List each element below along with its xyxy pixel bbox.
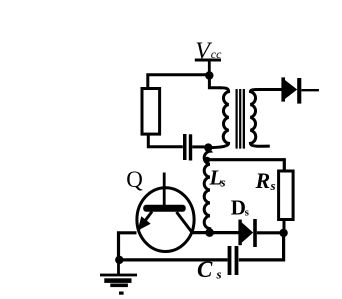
svg-text:s: s xyxy=(270,178,276,193)
node Vcc junction xyxy=(205,71,213,79)
wire bottom rail xyxy=(118,258,228,261)
label Ls xyxy=(209,165,226,189)
transistor Q collector lead xyxy=(177,212,193,232)
wire Rs bottom stub xyxy=(283,220,286,231)
wire diode cathode to Rs node xyxy=(257,231,280,234)
wire output xyxy=(301,89,319,91)
svg-text:Q: Q xyxy=(126,167,143,192)
wire Vcc node down to transformer primary xyxy=(209,78,221,88)
node diode-Rs junction xyxy=(279,229,287,237)
label Cs xyxy=(197,257,222,282)
svg-text:s: s xyxy=(245,207,250,219)
svg-text:s: s xyxy=(216,267,222,282)
inductor Ls xyxy=(204,150,210,231)
label Ds xyxy=(231,195,250,219)
transformer primary winding xyxy=(211,88,229,148)
svg-text:s: s xyxy=(220,175,226,190)
transistor Q emitter with arrow xyxy=(138,212,152,231)
wire ground stub xyxy=(117,260,120,274)
transformer core xyxy=(236,89,246,149)
transistor Q body xyxy=(137,188,194,252)
wire right rail down and to Cs xyxy=(239,233,284,260)
node capacitor junction xyxy=(204,143,212,151)
wire collector to node xyxy=(190,231,208,234)
diode (output rectifier) xyxy=(281,77,301,103)
resistor (bias) xyxy=(142,89,160,135)
Vcc supply bar xyxy=(195,59,221,62)
wire base lead xyxy=(163,173,166,207)
wire diode anode xyxy=(210,231,239,234)
capacitor Cs xyxy=(228,246,239,275)
wire resistor bottom to capacitor xyxy=(148,134,183,147)
wire Vcc stub xyxy=(208,62,211,74)
node emitter-ground junction xyxy=(115,256,123,264)
capacitor (coupling) xyxy=(183,134,192,161)
transistor Q base bar xyxy=(143,205,186,212)
node Ls-collector-diode junction xyxy=(205,228,214,237)
wire emitter to ground corner xyxy=(119,233,137,258)
label Rs xyxy=(255,168,276,193)
resistor Rs xyxy=(279,171,294,220)
node tap junction xyxy=(204,157,210,163)
diode Ds xyxy=(238,219,256,247)
transformer secondary winding xyxy=(250,90,281,147)
wire tap to Rs xyxy=(207,160,284,172)
svg-text:R: R xyxy=(255,168,271,193)
wire capacitor to node xyxy=(192,145,206,148)
ground xyxy=(100,274,137,295)
label Vcc xyxy=(195,38,222,64)
wire top rail to resistor xyxy=(148,75,206,89)
